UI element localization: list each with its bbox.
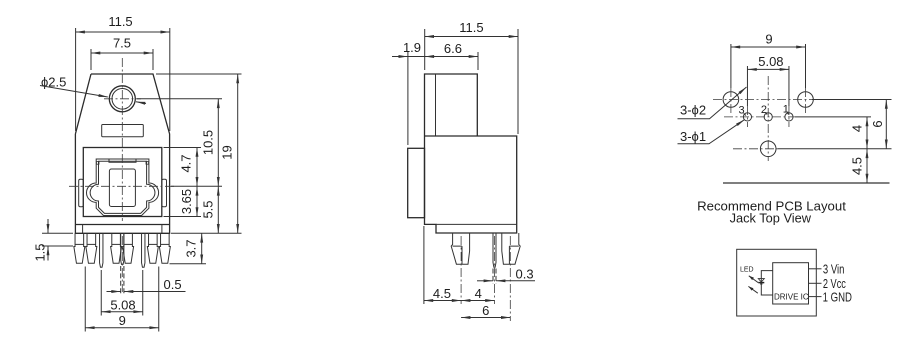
svg-text:Jack Top View: Jack Top View bbox=[730, 211, 812, 226]
pin 3 (right) bbox=[142, 233, 145, 267]
drive ic box bbox=[773, 263, 809, 304]
center mounting post pair bbox=[111, 233, 134, 263]
dim 3.7 bbox=[201, 233, 203, 263]
svg-text:3: 3 bbox=[739, 105, 745, 117]
dim 6 right bbox=[885, 100, 887, 149]
dim 10.5 bbox=[217, 99, 219, 187]
led emission arrows bbox=[749, 276, 758, 283]
right side tab bbox=[162, 179, 167, 206]
pin hole 3 bbox=[743, 113, 751, 121]
pcb edge line bbox=[723, 182, 890, 184]
toslink opening inner outline bbox=[90, 161, 155, 213]
pin 2 (center) bbox=[121, 233, 124, 264]
svg-text:3-ϕ2: 3-ϕ2 bbox=[680, 103, 706, 118]
centerlines bbox=[713, 99, 812, 101]
wire from LED to drive ic bbox=[761, 271, 772, 295]
dim 4.7 bbox=[196, 148, 198, 187]
dim 5.08 bbox=[747, 68, 789, 70]
dim 19 bbox=[237, 74, 239, 233]
dim 11.5 top bbox=[75, 28, 77, 131]
circle horizontal centerline bbox=[104, 98, 141, 100]
svg-text:10.5: 10.5 bbox=[200, 130, 215, 155]
dim 1.5 left bbox=[42, 232, 73, 234]
right post (side) bbox=[502, 233, 520, 264]
vertical centerline bbox=[121, 58, 123, 221]
label plate rectangle bbox=[102, 125, 144, 137]
svg-text:0.5: 0.5 bbox=[164, 277, 182, 292]
dim 6.6 bbox=[477, 52, 479, 70]
svg-text:LED: LED bbox=[740, 267, 754, 274]
dim 0.3 bbox=[492, 269, 494, 284]
toslink top key notch bbox=[109, 159, 136, 162]
dim 9 bottom bbox=[84, 267, 86, 332]
dim 3.65 bbox=[196, 186, 198, 216]
svg-text:9: 9 bbox=[765, 32, 772, 47]
main body bbox=[425, 136, 517, 233]
post centerlines bbox=[460, 236, 462, 304]
pin 2 line bbox=[809, 282, 822, 284]
toslink opening outer outline bbox=[86, 159, 158, 216]
svg-text:4.5: 4.5 bbox=[433, 286, 451, 301]
dim 4.5 right bbox=[866, 149, 868, 183]
pin 3 line bbox=[809, 268, 822, 270]
dim 4 bbox=[461, 300, 494, 302]
svg-text:9: 9 bbox=[119, 313, 126, 328]
horizontal centerline of receptacle bbox=[69, 185, 176, 187]
toslink corner marks bbox=[96, 162, 99, 165]
receptacle square bbox=[83, 148, 162, 217]
dim 9 bbox=[731, 46, 806, 48]
svg-text:3 Vin: 3 Vin bbox=[823, 262, 845, 277]
flange notch lines bbox=[82, 225, 84, 234]
dim 4 right bbox=[866, 117, 868, 149]
svg-text:1.5: 1.5 bbox=[33, 243, 48, 261]
svg-text:0.3: 0.3 bbox=[516, 267, 534, 282]
left mounting post pair bbox=[74, 233, 97, 263]
dim 4.5 bbox=[424, 300, 461, 302]
top block inner line bbox=[435, 74, 437, 136]
pin 1 line bbox=[809, 296, 822, 298]
svg-text:2: 2 bbox=[761, 104, 767, 116]
dim 1.9 bbox=[407, 52, 409, 145]
top block bbox=[425, 74, 478, 136]
svg-text:11.5: 11.5 bbox=[108, 14, 132, 29]
svg-text:5.08: 5.08 bbox=[758, 54, 783, 69]
shutter rectangle bbox=[109, 169, 135, 207]
svg-text:3.65: 3.65 bbox=[179, 189, 194, 214]
ext line body front bottom bbox=[423, 226, 425, 304]
signal pin (side) bbox=[493, 233, 496, 267]
svg-text:3-ϕ1: 3-ϕ1 bbox=[680, 129, 706, 144]
front bezel bbox=[408, 148, 425, 217]
module outer box bbox=[737, 249, 817, 316]
svg-text:1 GND: 1 GND bbox=[823, 290, 852, 305]
left phi2 hole bbox=[723, 92, 739, 108]
mounting hole circle inner bbox=[112, 89, 133, 110]
pin 1 (left) bbox=[100, 233, 103, 267]
pin hole 2 bbox=[764, 113, 772, 121]
svg-text:19: 19 bbox=[220, 145, 235, 159]
svg-text:6: 6 bbox=[482, 303, 489, 318]
svg-text:6.6: 6.6 bbox=[444, 41, 462, 56]
svg-text:4.5: 4.5 bbox=[850, 157, 865, 175]
jack body outline (trapezoid top + rectangular body + bottom flange) bbox=[75, 74, 169, 233]
flange line bbox=[436, 223, 517, 225]
pin centerline bbox=[494, 236, 496, 304]
svg-text:4: 4 bbox=[850, 125, 865, 132]
dim 5.08 bottom bbox=[100, 270, 102, 316]
svg-text:ϕ2.5: ϕ2.5 bbox=[41, 75, 66, 90]
svg-text:7.5: 7.5 bbox=[113, 36, 131, 51]
svg-text:4: 4 bbox=[475, 286, 482, 301]
svg-text:5.08: 5.08 bbox=[110, 298, 135, 313]
left side tab bbox=[79, 179, 84, 206]
pin hole 1 bbox=[785, 113, 793, 121]
svg-text:6: 6 bbox=[870, 120, 885, 127]
svg-text:1.9: 1.9 bbox=[403, 40, 421, 55]
svg-text:5.5: 5.5 bbox=[200, 200, 215, 218]
svg-text:DRIVE IC: DRIVE IC bbox=[774, 293, 809, 302]
svg-text:11.5: 11.5 bbox=[459, 20, 483, 35]
dim 0.5 bottom bbox=[120, 266, 122, 295]
dim 7.5 bbox=[90, 49, 92, 70]
dim 6 bbox=[461, 317, 510, 319]
dim 11.5 bbox=[424, 29, 426, 70]
dim 5.5 bbox=[217, 186, 219, 233]
left post (side) bbox=[451, 233, 469, 264]
svg-text:4.7: 4.7 bbox=[179, 154, 194, 172]
led diode symbol bbox=[758, 279, 764, 282]
mounting hole circle outer bbox=[109, 86, 135, 112]
right mounting post pair bbox=[147, 233, 170, 263]
center phi2 hole bbox=[760, 141, 776, 157]
right extension lines bbox=[156, 73, 242, 75]
svg-text:3.7: 3.7 bbox=[184, 239, 199, 257]
right phi2 hole bbox=[798, 92, 814, 108]
